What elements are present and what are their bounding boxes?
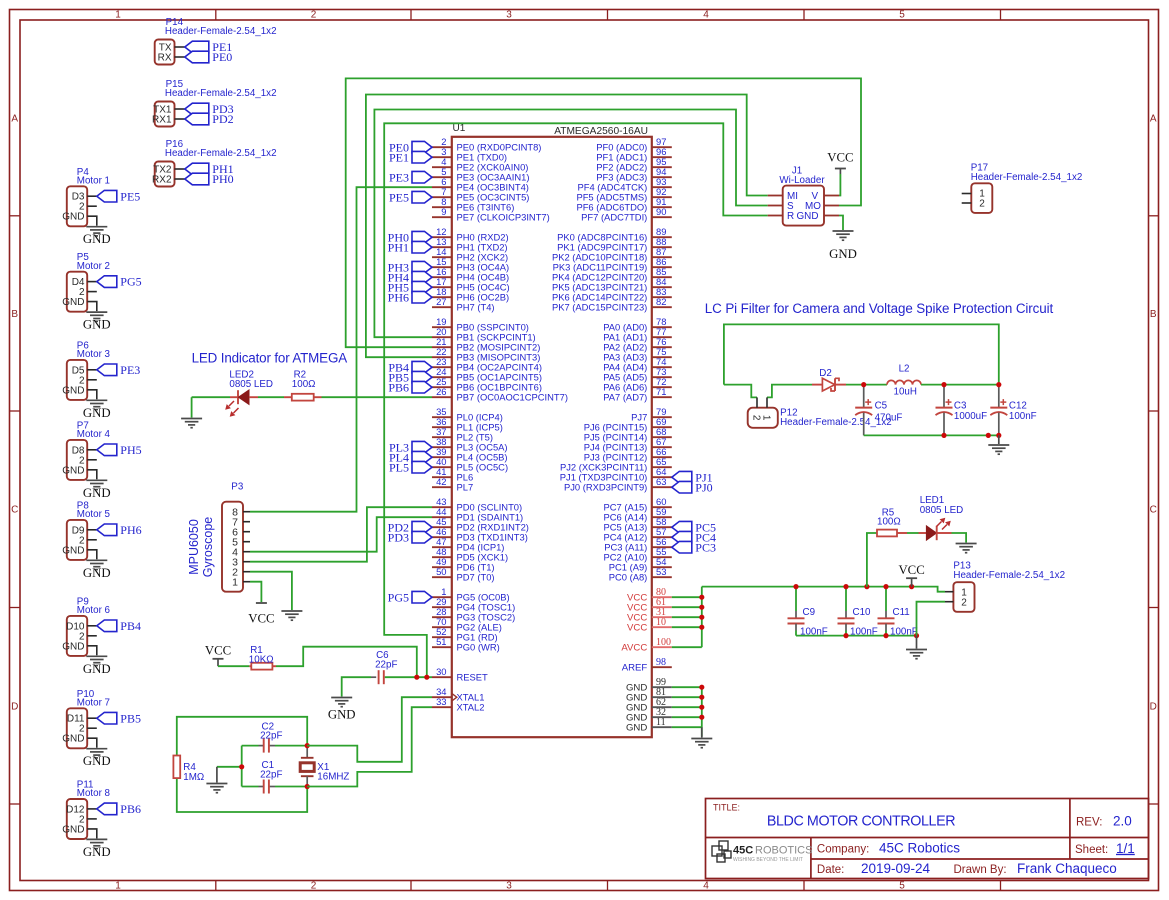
svg-text:5: 5 — [899, 881, 905, 892]
svg-text:LED Indicator for ATMEGA: LED Indicator for ATMEGA — [192, 351, 348, 366]
svg-text:42: 42 — [436, 476, 446, 487]
XTAL1 clock chevron — [452, 693, 457, 701]
U1 pin 97 PF0 — [652, 146, 672, 148]
svg-text:TITLE:: TITLE: — [713, 803, 740, 813]
svg-text:PB6: PB6 — [120, 802, 141, 816]
svg-text:GND: GND — [83, 406, 111, 420]
svg-text:PJ0 (RXD3PCINT9): PJ0 (RXD3PCINT9) — [564, 482, 647, 493]
junction dots RESET net — [414, 675, 419, 680]
svg-text:4: 4 — [703, 881, 709, 892]
U1 pin 26 PB7 — [432, 396, 452, 398]
svg-text:P3: P3 — [231, 482, 244, 493]
wire P3 pin8 to U1 PE4 pin6 — [250, 187, 432, 512]
connector P3 MPU6050 Gyroscope body — [222, 502, 243, 592]
svg-text:RX: RX — [158, 52, 172, 63]
svg-text:10KΩ: 10KΩ — [249, 654, 274, 665]
U1 pin 33 XTAL2 — [432, 706, 452, 708]
diode D2 — [812, 378, 846, 391]
svg-text:GND: GND — [626, 723, 647, 734]
svg-text:Drawn By:: Drawn By: — [954, 864, 1007, 876]
junction dots VCC bus — [699, 595, 704, 600]
capacitor C2 — [263, 739, 265, 753]
ground symbol below J1 — [833, 230, 854, 232]
ground symbol P8 — [86, 559, 107, 561]
wire XTAL1 to U1 — [307, 697, 432, 762]
svg-text:PE3: PE3 — [120, 363, 140, 377]
svg-text:90: 90 — [656, 206, 666, 217]
svg-text:B: B — [1150, 309, 1157, 320]
net flag PE0 — [412, 141, 432, 153]
svg-text:VCC: VCC — [627, 623, 647, 634]
U1 pin 22 PB3 — [432, 356, 452, 358]
svg-text:0805 LED: 0805 LED — [229, 379, 273, 390]
svg-text:98: 98 — [656, 657, 666, 668]
U1 pin 8 PE6 — [432, 206, 452, 208]
svg-text:82: 82 — [656, 296, 666, 307]
svg-text:C10: C10 — [853, 607, 872, 618]
ground symbol LC filter — [998, 435, 1000, 444]
svg-text:16MHZ: 16MHZ — [317, 771, 349, 782]
power VCC symbol at P13 rail — [911, 578, 913, 586]
svg-text:PJ0: PJ0 — [695, 480, 712, 494]
U1 pin 94 PF3 — [652, 176, 672, 178]
svg-text:1: 1 — [761, 415, 772, 421]
svg-text:PG5: PG5 — [120, 275, 141, 289]
U1 pin 99 GND — [652, 686, 672, 688]
U1 pin 14 PH2 — [432, 256, 452, 258]
net flag PH3 — [412, 261, 432, 273]
connector J1 Wi-Loader body — [783, 186, 824, 226]
U1 pin 28 PG3 — [432, 616, 452, 618]
svg-text:PD2: PD2 — [212, 112, 233, 126]
svg-text:PH6: PH6 — [120, 523, 141, 537]
power VCC symbol at R1 — [217, 659, 219, 666]
P6 pin stubs — [87, 369, 97, 371]
U1 pin 73 PA5 — [652, 376, 672, 378]
U1 pin 27 PH7 — [432, 306, 452, 308]
net flag PH1 — [185, 163, 209, 175]
U1 pin 96 PF1 — [652, 156, 672, 158]
svg-text:C: C — [1150, 505, 1157, 516]
svg-text:L2: L2 — [899, 363, 910, 374]
svg-text:11: 11 — [656, 717, 666, 728]
U1 pin 92 PF5 — [652, 196, 672, 198]
U1 pin 98 AREF — [652, 666, 672, 668]
U1 pin 68 PJ5 — [652, 436, 672, 438]
wire VCC rail to R5 — [867, 533, 877, 587]
svg-text:MPU6050: MPU6050 — [187, 519, 201, 575]
capacitor C5 470uF electrolytic — [863, 385, 865, 408]
U1 pin 44 PD1 — [432, 516, 452, 518]
U1 pin 52 PG1 — [432, 636, 452, 638]
net flag PL4 — [412, 451, 432, 463]
svg-text:30: 30 — [436, 666, 446, 677]
U1 pin 58 PC5 — [652, 526, 672, 528]
svg-text:VCC: VCC — [248, 612, 274, 626]
U1 pin 86 PK3 — [652, 266, 672, 268]
U1 pin 3 PE1 — [432, 156, 452, 158]
wire C2 branch — [242, 745, 259, 747]
net flag PE3 — [97, 364, 117, 376]
svg-text:AVCC: AVCC — [621, 643, 647, 654]
LED LED1 0805 — [919, 518, 952, 541]
svg-text:ATMEGA2560-16AU: ATMEGA2560-16AU — [554, 126, 648, 137]
svg-text:2: 2 — [311, 10, 317, 21]
svg-text:Frank Chaqueco: Frank Chaqueco — [1017, 861, 1117, 876]
U1 pin 42 PL7 — [432, 486, 452, 488]
net flag PL3 — [412, 441, 432, 453]
svg-text:LC Pi Filter for Camera and Vo: LC Pi Filter for Camera and Voltage Spik… — [705, 301, 1054, 316]
capacitor C6 — [371, 676, 376, 678]
svg-text:A: A — [11, 114, 18, 125]
svg-text:PH0: PH0 — [212, 172, 233, 186]
U1 pin 24 PB5 — [432, 376, 452, 378]
P10 pin stubs — [87, 717, 97, 719]
svg-text:AREF: AREF — [622, 663, 648, 674]
net flag PH0 — [412, 231, 432, 243]
svg-text:ROBOTICS: ROBOTICS — [755, 845, 812, 857]
net flag PE5 — [412, 191, 432, 203]
wire C1-C2 vertical link — [241, 746, 243, 787]
svg-text:PH7 (T4): PH7 (T4) — [457, 302, 495, 313]
capacitor C1 — [263, 780, 265, 794]
svg-text:4: 4 — [703, 10, 709, 21]
svg-text:Motor 5: Motor 5 — [77, 509, 111, 520]
junction dots rails — [793, 584, 798, 589]
ground symbol P11 — [86, 838, 107, 840]
inductor L2 10uH — [887, 380, 921, 384]
svg-text:GND: GND — [62, 545, 84, 556]
svg-text:PB5: PB5 — [120, 711, 141, 725]
U1 pin 37 PL2 — [432, 436, 452, 438]
resistor R5 — [877, 530, 897, 537]
junction dots GND bus — [699, 685, 704, 690]
ground symbol P4 — [86, 226, 107, 228]
wire P13 pin2 to gnd rail — [917, 602, 946, 636]
wire D2 to C5 junction — [846, 384, 864, 386]
svg-text:Header-Female-2.54_1x2: Header-Female-2.54_1x2 — [165, 26, 277, 37]
U1 pin 5 PE3 — [432, 176, 452, 178]
svg-text:PE1: PE1 — [389, 150, 409, 164]
net flag PH1 — [412, 241, 432, 253]
svg-text:Sheet:: Sheet: — [1075, 844, 1108, 856]
svg-text:GND: GND — [797, 211, 819, 222]
wire VCC pins to bus — [672, 587, 702, 648]
U1 pin 36 PL1 — [432, 426, 452, 428]
U1 pin 11 GND — [652, 726, 672, 728]
svg-text:D: D — [1150, 702, 1157, 713]
svg-text:PB7 (OC0AOC1CPCINT7): PB7 (OC0AOC1CPCINT7) — [457, 392, 568, 403]
svg-text:PA7 (AD7): PA7 (AD7) — [603, 392, 647, 403]
U1 pin 49 PD6 — [432, 566, 452, 568]
svg-text:B: B — [11, 309, 18, 320]
wire VCC rail to P13 — [702, 587, 945, 592]
svg-text:51: 51 — [436, 636, 446, 647]
svg-text:PB6: PB6 — [388, 380, 409, 394]
svg-text:PE3: PE3 — [389, 170, 409, 184]
U1 pin 77 PA1 — [652, 336, 672, 338]
U1 pin 51 PG0 — [432, 646, 452, 648]
svg-text:45C: 45C — [733, 845, 753, 857]
resistor R2 — [284, 396, 292, 398]
U1 pin 93 PF4 — [652, 186, 672, 188]
svg-text:22pF: 22pF — [260, 731, 282, 742]
P5 pin stubs — [87, 281, 97, 283]
U1 pin 88 PK1 — [652, 246, 672, 248]
U1 pin 85 PK4 — [652, 276, 672, 278]
U1 pin 95 PF2 — [652, 166, 672, 168]
wire RESET row into U1 pin30 — [385, 676, 432, 678]
wire net SCL: P3 pin3 to U1 PD0 pin43 — [250, 507, 432, 562]
U1 pin 90 PF7 — [652, 216, 672, 218]
svg-text:Motor 7: Motor 7 — [77, 698, 110, 709]
U1 pin 13 PH1 — [432, 246, 452, 248]
svg-text:VCC: VCC — [827, 151, 853, 165]
svg-text:10: 10 — [656, 617, 666, 628]
svg-text:22pF: 22pF — [260, 769, 282, 780]
title block frame — [706, 799, 1149, 879]
P15 pin stubs — [175, 108, 185, 110]
connector P12 Header-Female-2.54_1x2 — [748, 408, 778, 428]
svg-text:PL5: PL5 — [389, 460, 409, 474]
svg-text:PE5: PE5 — [120, 189, 140, 203]
net flag PJ0 — [672, 481, 692, 493]
svg-text:GND: GND — [62, 734, 84, 745]
svg-text:GND: GND — [328, 708, 356, 722]
wire J1 V pin to VCC — [839, 174, 840, 196]
svg-text:REV:: REV: — [1076, 817, 1102, 829]
U1 pin 31 VCC — [652, 616, 672, 618]
wire XTAL2 to U1 — [307, 707, 432, 786]
U1 pin 72 PA6 — [652, 386, 672, 388]
wire net MOSI: J1 MO to U1 PB2 pin21 — [346, 78, 861, 347]
svg-text:53: 53 — [656, 566, 666, 577]
svg-text:WISHING BEYOND THE LIMIT: WISHING BEYOND THE LIMIT — [733, 857, 803, 863]
svg-text:2: 2 — [979, 199, 985, 210]
U1 pin 34 XTAL1 — [432, 696, 452, 698]
U1 pin 62 GND — [652, 706, 672, 708]
net flag PD3 — [412, 531, 432, 543]
wire P3 pin1 to VCC — [250, 582, 261, 602]
ground symbol at LED1 — [956, 543, 977, 545]
U1 pin 59 PC6 — [652, 516, 672, 518]
U1 pin 79 PJ7 — [652, 416, 672, 418]
svg-text:Motor 3: Motor 3 — [77, 349, 111, 360]
wire J1 GND pin — [839, 216, 843, 231]
ground symbol P9 — [86, 655, 107, 657]
P3 pin stubs and numbers — [243, 511, 250, 513]
svg-text:PC3: PC3 — [695, 540, 716, 554]
svg-text:1MΩ: 1MΩ — [183, 772, 204, 783]
wire C5 to L2 — [864, 384, 887, 386]
svg-text:GND: GND — [62, 824, 84, 835]
svg-text:100Ω: 100Ω — [292, 379, 316, 390]
svg-text:PK7 (ADC15PCINT23): PK7 (ADC15PCINT23) — [552, 302, 647, 313]
U1 pin 38 PL3 — [432, 446, 452, 448]
svg-text:PD3: PD3 — [388, 530, 409, 544]
wire R5 to LED1 — [907, 532, 919, 534]
wire VCC to R1 — [218, 665, 249, 667]
svg-text:GND: GND — [62, 385, 84, 396]
P8 pin stubs — [87, 529, 97, 531]
U1 pin 64 PJ1 — [652, 476, 672, 478]
svg-text:RX1: RX1 — [152, 114, 172, 125]
svg-text:1/1: 1/1 — [1116, 841, 1135, 856]
svg-text:33: 33 — [436, 696, 446, 707]
svg-text:Motor 4: Motor 4 — [77, 429, 111, 440]
svg-text:71: 71 — [656, 386, 666, 397]
svg-text:PE0: PE0 — [212, 50, 232, 64]
LED D? LED2 0805 — [225, 390, 258, 417]
svg-text:Motor 6: Motor 6 — [77, 605, 111, 616]
net flag PE1 — [185, 41, 209, 53]
ground symbol P6 — [86, 399, 107, 401]
U1 pin 29 PG4 — [432, 606, 452, 608]
capacitor C3 1000uF electrolytic — [943, 385, 945, 408]
svg-text:R: R — [787, 211, 794, 222]
svg-text:PF7 (ADC7TDI): PF7 (ADC7TDI) — [581, 212, 647, 223]
svg-text:PL7: PL7 — [457, 482, 474, 493]
wire L2 to C3 to C12 — [921, 384, 999, 386]
svg-text:Motor 2: Motor 2 — [77, 261, 110, 272]
net flag PE3 — [412, 171, 432, 183]
ground symbol at P3 — [281, 610, 302, 612]
net flag PG5 — [97, 276, 117, 288]
svg-text:GND: GND — [83, 662, 111, 676]
wire net SCK: J1 S to U1 PB1 pin20 — [374, 110, 767, 338]
U1 pin 54 PC1 — [652, 566, 672, 568]
U1 pin 55 PC2 — [652, 556, 672, 558]
svg-text:3: 3 — [506, 10, 512, 21]
U1 pin 18 PH6 — [432, 296, 452, 298]
U1 pin 40 PL5 — [432, 466, 452, 468]
U1 pin 15 PH3 — [432, 266, 452, 268]
U1 pin 82 PK7 — [652, 306, 672, 308]
P14 pin stubs — [175, 46, 185, 48]
U1 pin 4 PE2 — [432, 166, 452, 168]
svg-text:GND: GND — [83, 566, 111, 580]
power VCC symbol above J1 — [839, 169, 841, 175]
svg-text:10uH: 10uH — [894, 387, 917, 398]
svg-text:63: 63 — [656, 476, 666, 487]
U1 pin 7 PE5 — [432, 196, 452, 198]
net flag PJ1 — [672, 471, 692, 483]
svg-text:1: 1 — [115, 881, 121, 892]
junction dots crystal — [305, 743, 310, 748]
U1 pin 39 PL4 — [432, 456, 452, 458]
svg-text:Date:: Date: — [817, 864, 845, 876]
net flag PD2 — [185, 113, 209, 125]
net flag PB4 — [412, 361, 432, 373]
wire C6 to ground — [342, 677, 371, 696]
U1 pin 32 GND — [652, 716, 672, 718]
U1 pin 23 PB4 — [432, 366, 452, 368]
U1 pin 60 PC7 — [652, 506, 672, 508]
P4 pin stubs — [87, 195, 97, 197]
net flag PH5 — [412, 281, 432, 293]
resistor R1 — [249, 665, 251, 667]
U1 pin 20 PB1 — [432, 336, 452, 338]
net flag PC4 — [672, 531, 692, 543]
net flag PH5 — [97, 444, 117, 456]
P9 pin stubs — [87, 625, 97, 627]
U1 pin 87 PK2 — [652, 256, 672, 258]
capacitor C10 100nF — [845, 587, 847, 611]
U1 pin 76 PA2 — [652, 346, 672, 348]
U1 pin 56 PC3 — [652, 546, 672, 548]
ground symbol below P13 — [916, 636, 918, 649]
net flag PD3 — [185, 103, 209, 115]
P11 pin stubs — [87, 808, 97, 810]
ground symbol P5 — [86, 311, 107, 313]
U1 pin 67 PJ4 — [652, 446, 672, 448]
svg-text:VCC: VCC — [205, 644, 231, 658]
wire R1 to RESET — [276, 647, 417, 678]
net flag PH6 — [412, 291, 432, 303]
net flag PC5 — [672, 521, 692, 533]
svg-text:C12: C12 — [1009, 401, 1027, 412]
U1 pin 84 PK5 — [652, 286, 672, 288]
svg-text:3: 3 — [506, 881, 512, 892]
U1 pin 25 PB6 — [432, 386, 452, 388]
U1 pin 65 PJ2 — [652, 466, 672, 468]
U1 pin 71 PA7 — [652, 396, 672, 398]
P17 pin stubs — [962, 193, 972, 195]
U1 pin 30 RESET — [432, 676, 452, 678]
U1 pin 50 PD7 — [432, 576, 452, 578]
svg-text:D: D — [11, 702, 18, 713]
ground symbol P10 — [86, 748, 107, 750]
svg-text:C5: C5 — [875, 401, 888, 412]
U1 pin 61 VCC — [652, 606, 672, 608]
svg-text:2019-09-24: 2019-09-24 — [861, 861, 931, 876]
45C Robotics logo — [712, 841, 812, 863]
U1 pin 53 PC0 — [652, 576, 672, 578]
svg-text:9: 9 — [441, 206, 446, 217]
svg-text:GND: GND — [62, 212, 84, 223]
U1 pin 16 PH4 — [432, 276, 452, 278]
svg-text:PD7 (T0): PD7 (T0) — [457, 572, 495, 583]
U1 pin 17 PH5 — [432, 286, 452, 288]
wire net RESET from J1 R — [384, 123, 768, 677]
resistor R4 — [173, 756, 180, 779]
svg-text:2: 2 — [961, 598, 967, 609]
svg-text:1: 1 — [115, 10, 121, 21]
U1 pin 69 PJ6 — [652, 426, 672, 428]
net flag PB6 — [97, 803, 117, 815]
svg-text:2: 2 — [751, 415, 762, 421]
wire LED1 to gnd — [952, 533, 967, 543]
wire gnd tap — [217, 766, 242, 768]
svg-text:PH5: PH5 — [120, 443, 141, 457]
U1 pin 70 PG2 — [432, 626, 452, 628]
svg-text:470uF: 470uF — [875, 413, 903, 424]
svg-text:2: 2 — [311, 881, 317, 892]
wire LC bottom rail — [864, 434, 999, 436]
svg-text:Header-Female-2.54_1x2: Header-Female-2.54_1x2 — [165, 88, 277, 99]
U1 pin 41 PL6 — [432, 476, 452, 478]
wire C1 branch — [242, 786, 259, 788]
svg-text:PH1: PH1 — [388, 240, 409, 254]
ground symbol below U1 — [701, 727, 703, 737]
junction dots LC — [861, 382, 866, 387]
svg-text:GND: GND — [83, 486, 111, 500]
svg-text:Wi-Loader: Wi-Loader — [779, 175, 825, 186]
wire net PB7 LED chain — [192, 396, 230, 398]
svg-text:PG0 (WR): PG0 (WR) — [457, 642, 500, 653]
svg-text:C11: C11 — [893, 607, 910, 618]
svg-text:45C Robotics: 45C Robotics — [879, 840, 960, 855]
